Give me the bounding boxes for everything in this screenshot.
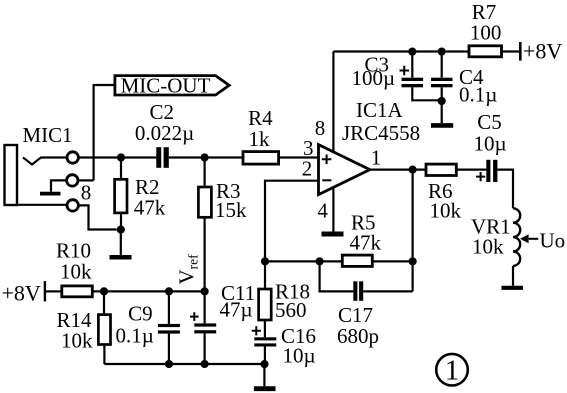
wiper arrow Uo — [520, 234, 529, 243]
wire C17 loop left — [320, 261, 354, 291]
wire op-amp output — [370, 169, 426, 171]
svg-text:8: 8 — [315, 116, 326, 140]
svg-text:Uo: Uo — [540, 229, 566, 253]
svg-text:0.1µ: 0.1µ — [459, 83, 497, 107]
wire R4 to op-amp pin3 — [279, 156, 319, 158]
jack contact circle 1 (tip) — [67, 152, 78, 163]
wire op-amp pin4 down — [332, 187, 334, 231]
svg-text:MIC1: MIC1 — [23, 123, 73, 147]
capacitor C5 — [486, 160, 497, 182]
wire ring contact to MIC-OUT flag drop — [79, 179, 94, 181]
wire C2 to R4 — [169, 156, 243, 158]
node dot C9 top — [165, 287, 173, 295]
plus mark C5 — [476, 172, 485, 181]
net flag MIC-OUT — [115, 76, 229, 95]
svg-text:Vref: Vref — [175, 254, 201, 285]
op-amp minus input mark — [322, 179, 331, 181]
op-amp plus input mark — [322, 155, 332, 165]
ground (mic ring) — [40, 192, 61, 196]
svg-text:10k: 10k — [472, 235, 504, 259]
resistor R7 — [469, 46, 502, 57]
svg-text:1: 1 — [445, 354, 460, 386]
resistor R2 — [120, 158, 122, 180]
ground (C4) — [431, 123, 453, 128]
node dot C17 branch — [316, 257, 324, 265]
resistor R18 — [264, 261, 266, 289]
wire C5 to VR1 — [497, 170, 513, 209]
wire +8V to R10 — [46, 290, 62, 292]
wire R5 to right node — [372, 260, 412, 262]
svg-text:10k: 10k — [430, 199, 462, 223]
resistor R5 — [342, 255, 372, 266]
svg-text:1: 1 — [371, 146, 382, 170]
capacitor C16 — [254, 337, 276, 346]
ground (op-amp pin4) — [322, 232, 344, 237]
svg-text:680p: 680p — [337, 324, 379, 348]
wire bottom ground rail — [104, 363, 264, 365]
node dot C11 top — [201, 287, 209, 295]
wire MIC-OUT flag drop — [94, 85, 114, 180]
plus mark C16 — [252, 326, 261, 335]
node dot C2 right — [201, 153, 209, 161]
node dot bottom rail right — [260, 360, 268, 368]
node dot output — [409, 166, 417, 174]
svg-text:47k: 47k — [134, 195, 166, 219]
wire contact3 to R2 bottom node — [79, 205, 116, 229]
node dot C2 left — [117, 153, 125, 161]
tip spring contact — [23, 158, 66, 165]
resistor R3 — [204, 158, 206, 188]
svg-text:IC1A: IC1A — [356, 98, 404, 122]
wire R6 to C5 — [456, 169, 486, 171]
svg-text:JRC4558: JRC4558 — [342, 121, 420, 145]
svg-text:560: 560 — [275, 298, 307, 322]
wire ring contact to ground hook — [51, 180, 66, 191]
node dot C9 bottom — [165, 360, 173, 368]
wire Vref rail — [92, 290, 204, 292]
wire C17 loop right — [363, 290, 412, 292]
svg-text:0.022µ: 0.022µ — [135, 121, 194, 145]
resistor R6 — [426, 164, 456, 175]
svg-text:+8V: +8V — [523, 39, 562, 64]
node dot feedback left — [261, 257, 269, 265]
ground (VR1) — [502, 286, 524, 290]
capacitor C3 — [411, 52, 413, 78]
capacitor C9 — [168, 291, 170, 324]
svg-text:100: 100 — [470, 20, 502, 44]
node dot R10/R14 — [100, 287, 108, 295]
op-amp U1 IC1A triangle — [319, 145, 370, 195]
svg-text:C5: C5 — [477, 110, 502, 134]
wire output node down to feedback — [412, 170, 414, 292]
schematic number circle 1 — [436, 354, 468, 386]
potentiometer VR1 coil — [513, 208, 520, 266]
svg-text:10µ: 10µ — [473, 132, 506, 156]
capacitor C11 — [204, 291, 206, 323]
svg-text:8: 8 — [81, 181, 92, 205]
wire sleeve from jack body to contact 3 — [17, 204, 66, 206]
wire op-amp pin8 up — [332, 52, 334, 152]
svg-text:+8V: +8V — [2, 280, 41, 305]
svg-text:MIC-OUT: MIC-OUT — [121, 73, 211, 97]
node dot R2 bottom — [117, 226, 125, 234]
svg-text:4: 4 — [317, 199, 328, 223]
svg-text:15k: 15k — [215, 198, 247, 222]
node dot feedback right — [409, 257, 417, 265]
jack contact circle 2 (ring) — [67, 175, 78, 186]
resistor R10 — [62, 286, 93, 297]
svg-text:10k: 10k — [61, 328, 93, 352]
svg-text:2: 2 — [302, 157, 313, 181]
plus mark C3 — [400, 66, 410, 76]
terminal tick +8V left — [44, 281, 46, 301]
svg-text:10µ: 10µ — [283, 344, 316, 368]
svg-text:C9: C9 — [128, 302, 153, 326]
node dot C3/C4 bottom — [438, 97, 446, 105]
wire VR1 bottom — [512, 266, 514, 286]
ground (main) — [263, 364, 265, 386]
capacitor C2 — [156, 147, 169, 168]
plus mark C11 — [190, 312, 199, 321]
capacitor C4 — [441, 52, 443, 78]
capacitor C17 — [353, 281, 363, 301]
wire top +8V rail — [333, 50, 519, 52]
svg-text:0.1µ: 0.1µ — [116, 323, 154, 347]
terminal tick +8V top — [519, 42, 522, 61]
jack contact circle 3 (sleeve) — [67, 200, 78, 211]
svg-text:47k: 47k — [350, 231, 382, 255]
svg-text:47µ: 47µ — [220, 298, 253, 322]
node dot C3 top — [408, 48, 416, 56]
connector MIC1 jack body — [5, 145, 18, 205]
wire feedback row — [265, 260, 342, 262]
svg-text:100µ: 100µ — [352, 66, 396, 90]
wire main signal line — [79, 156, 156, 158]
wire op-amp pin2 loop — [265, 181, 319, 262]
node dot C4 top — [438, 48, 446, 56]
svg-text:10k: 10k — [60, 259, 92, 283]
node dot C11 bottom — [201, 360, 209, 368]
resistor R4 — [243, 152, 279, 165]
ground (R2) — [120, 230, 122, 255]
svg-text:1k: 1k — [249, 127, 271, 151]
resistor R14 — [103, 291, 105, 314]
